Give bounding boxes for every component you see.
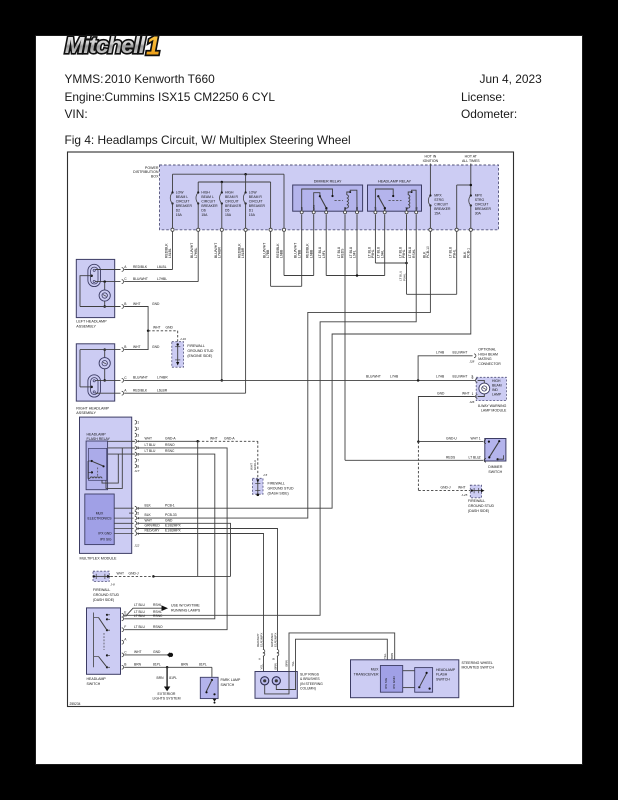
svg-text:GROUND STUD: GROUND STUD: [187, 349, 214, 353]
multiplex module pin 7: [135, 458, 137, 462]
svg-text:BREAKER: BREAKER: [434, 207, 451, 211]
svg-text:(DASH SIDE): (DASH SIDE): [93, 598, 114, 602]
svg-text:LAMP: LAMP: [492, 393, 502, 397]
svg-text:8-WAY WARNING: 8-WAY WARNING: [478, 404, 507, 408]
wire GND-J dashed drop: [417, 442, 419, 491]
circuit breaker D2: [172, 174, 174, 192]
svg-text:(DASH SIDE): (DASH SIDE): [268, 491, 289, 495]
multiplex module pin 1: [135, 420, 137, 424]
svg-text:GND: GND: [152, 345, 160, 349]
svg-text:HOT IN: HOT IN: [424, 154, 436, 158]
svg-text:J22: J22: [135, 544, 140, 548]
svg-text:F: F: [124, 625, 126, 629]
svg-text:EXTERIOR: EXTERIOR: [158, 692, 176, 696]
wire PCB-1: [137, 231, 471, 508]
svg-text:DIMMER: DIMMER: [488, 465, 503, 469]
svg-text:HIGH BEAM: HIGH BEAM: [478, 352, 498, 356]
wire flash relay to pin 5: [108, 447, 136, 449]
svg-text:REDS: REDS: [341, 248, 345, 258]
wire flash relay to pin 6: [108, 453, 136, 455]
svg-text:85: 85: [414, 206, 418, 209]
svg-text:LAMP MODULE: LAMP MODULE: [481, 409, 507, 413]
svg-text:6: 6: [137, 507, 139, 511]
svg-text:L6BB: L6BB: [309, 249, 313, 258]
svg-text:GROUND STUD: GROUND STUD: [268, 486, 295, 490]
svg-text:WHT: WHT: [134, 650, 142, 654]
wire P9HL headlamp 87-86 link: [374, 214, 376, 263]
mux electronics box: [85, 494, 114, 545]
svg-text:81PL: 81PL: [153, 662, 161, 666]
svg-text:1: 1: [479, 437, 481, 441]
svg-text:1: 1: [472, 392, 474, 396]
svg-text:GND-J: GND-J: [129, 571, 139, 575]
dimmer relay pin 85: [356, 211, 359, 214]
multiplex module lower pin 6: [114, 507, 133, 509]
svg-text:MPX: MPX: [475, 193, 483, 197]
svg-text:ETA: ETA: [312, 205, 316, 210]
multiplex module lower pin 2: [114, 528, 133, 530]
svg-text:30: 30: [324, 206, 328, 209]
svg-text:LT BLU: LT BLU: [145, 443, 156, 447]
dimmer switch pin 2: [484, 458, 486, 462]
wire GND left headlamp: [124, 307, 148, 331]
svg-text:RUNNING LAMPS: RUNNING LAMPS: [171, 608, 201, 612]
svg-text:J28: J28: [470, 359, 475, 363]
svg-text:L6LBL: L6LBL: [157, 265, 167, 269]
svg-text:BRN: BRN: [157, 676, 165, 680]
wire RSNC: [124, 454, 215, 619]
svg-text:IPX GND: IPX GND: [98, 532, 112, 536]
svg-text:(ENGINE SIDE): (ENGINE SIDE): [187, 354, 212, 358]
svg-text:J-25: J-25: [462, 493, 468, 497]
svg-text:L6LBR: L6LBR: [241, 247, 245, 258]
svg-text:2: 2: [472, 376, 474, 380]
svg-text:15A: 15A: [249, 213, 256, 217]
svg-text:B: B: [124, 663, 127, 667]
svg-text:LOW: LOW: [249, 190, 258, 194]
wire BRN slip ring riser: [289, 633, 395, 672]
svg-text:BRN: BRN: [181, 662, 189, 666]
svg-text:RIGHT HEADLAMP: RIGHT HEADLAMP: [76, 406, 109, 410]
svg-text:SWITCH: SWITCH: [87, 682, 101, 686]
svg-text:CIRCUIT: CIRCUIT: [249, 199, 263, 203]
svg-text:SWITCH: SWITCH: [221, 683, 235, 687]
multiplex module pin 4: [132, 440, 134, 442]
firewall ground stud J-25 (dash side): [470, 485, 481, 498]
8-way warning lamp module box: [476, 377, 506, 400]
svg-text:CIRCUIT: CIRCUIT: [201, 199, 215, 203]
multiplex module box: [80, 417, 132, 553]
svg-text:WHT: WHT: [153, 326, 161, 330]
svg-text:P9HL: P9HL: [371, 249, 375, 258]
svg-text:TRANSCEIVER: TRANSCEIVER: [354, 673, 379, 677]
left headlamp assembly: [76, 259, 114, 317]
wire RSHL: [124, 214, 416, 615]
svg-text:E1/82MPX: E1/82MPX: [274, 633, 278, 647]
svg-text:HIGH: HIGH: [201, 190, 210, 194]
svg-text:FLASH RELAY: FLASH RELAY: [87, 437, 111, 441]
svg-text:4: 4: [137, 516, 139, 520]
svg-text:A: A: [124, 389, 127, 393]
svg-text:E1/83MPX: E1/83MPX: [260, 633, 264, 647]
headlamp relay pin 87: [374, 211, 377, 214]
svg-text:GRN/RED: GRN/RED: [145, 524, 161, 528]
svg-text:(DASH SIDE): (DASH SIDE): [468, 509, 489, 513]
svg-text:HOT AT: HOT AT: [465, 154, 478, 158]
svg-text:85: 85: [355, 206, 359, 209]
svg-text:GND: GND: [152, 302, 160, 306]
header text: [65, 72, 104, 86]
svg-text:FIREWALL: FIREWALL: [268, 481, 285, 485]
svg-text:WHT: WHT: [458, 485, 466, 489]
wire L7BB drop: [270, 182, 272, 230]
svg-text:L6LBL: L6LBL: [168, 248, 172, 258]
MPX STRG circuit breaker 30A: [470, 164, 472, 196]
wire GND-J solid: [153, 575, 230, 577]
headlamp flash relay K1: [86, 441, 108, 490]
svg-text:B: B: [124, 345, 127, 349]
svg-text:BRN: BRN: [285, 660, 289, 666]
svg-text:GND-A: GND-A: [253, 459, 257, 470]
headlamp switch pin D: [122, 617, 124, 621]
svg-text:GND: GND: [153, 650, 161, 654]
svg-text:BRN: BRN: [273, 663, 277, 669]
svg-text:86: 86: [343, 206, 347, 209]
svg-text:RSNC: RSNC: [165, 449, 175, 453]
svg-text:WHT: WHT: [133, 302, 141, 306]
svg-text:86: 86: [405, 206, 409, 209]
svg-text:LT BLU: LT BLU: [134, 603, 145, 607]
svg-text:L6LBR: L6LBR: [157, 388, 168, 392]
wire E1/82MPX: [137, 529, 277, 650]
svg-text:OPTIONAL: OPTIONAL: [478, 348, 496, 352]
svg-text:CONNECTOR: CONNECTOR: [478, 362, 501, 366]
svg-text:HEADLAMP: HEADLAMP: [436, 668, 456, 672]
headlamp switch pin F: [122, 628, 124, 632]
svg-text:BLK: BLK: [145, 513, 152, 517]
svg-text:E1/82MPX: E1/82MPX: [165, 524, 182, 528]
headlamp switch pin E: [122, 613, 124, 617]
svg-text:ASSEMBLY: ASSEMBLY: [76, 324, 96, 328]
wire GND from 8-way lamp: [418, 397, 475, 442]
svg-text:DISTRIBUTION: DISTRIBUTION: [133, 170, 159, 174]
svg-text:BREAKER: BREAKER: [225, 204, 242, 208]
svg-text:15A: 15A: [176, 213, 183, 217]
high beam indicator lamp: [479, 383, 490, 394]
svg-text:MUX: MUX: [371, 668, 379, 672]
svg-text:IPX SIG: IPX SIG: [100, 538, 112, 542]
slip rings and brushes: [255, 672, 297, 699]
svg-text:FLASH: FLASH: [436, 673, 448, 677]
svg-text:BLU/WHT: BLU/WHT: [453, 351, 468, 355]
svg-text:15A: 15A: [434, 211, 441, 215]
svg-text:BREAKER: BREAKER: [201, 204, 218, 208]
MPX STRG circuit breaker 15A: [429, 164, 431, 196]
svg-text:IND: IND: [492, 388, 498, 392]
svg-text:BREAKER: BREAKER: [176, 204, 193, 208]
svg-text:D6: D6: [201, 208, 205, 212]
svg-text:RED/GRY: RED/GRY: [145, 529, 161, 533]
svg-text:& BRUSHES: & BRUSHES: [300, 677, 320, 681]
svg-text:L7HBL: L7HBL: [157, 277, 167, 281]
wire RSNO: [124, 448, 227, 630]
svg-text:DIMMER RELAY: DIMMER RELAY: [314, 180, 342, 184]
svg-text:PARK LAMP: PARK LAMP: [221, 678, 241, 682]
svg-text:81PL: 81PL: [169, 676, 177, 680]
svg-text:PCB-10: PCB-10: [426, 246, 430, 258]
svg-text:2: 2: [137, 427, 139, 431]
left headlamp pin B: [122, 305, 124, 309]
svg-text:WHT: WHT: [133, 345, 141, 349]
diagram border frame: [68, 152, 514, 707]
dimmer relay pin 86: [344, 211, 347, 214]
wire L6LBL: [124, 269, 172, 271]
svg-text:GROUND STUD: GROUND STUD: [93, 593, 120, 597]
svg-text:RSNO: RSNO: [153, 625, 163, 629]
firewall ground stud J-8 (dash side): [93, 571, 109, 581]
svg-text:YEL: YEL: [291, 660, 295, 666]
wire GND right headlamp: [124, 331, 148, 350]
svg-text:SWITCH: SWITCH: [436, 677, 450, 681]
svg-text:WHT: WHT: [145, 518, 153, 522]
svg-text:BEAM R: BEAM R: [225, 195, 239, 199]
svg-text:15A: 15A: [201, 213, 208, 217]
dimmer relay pin 87: [300, 211, 303, 214]
mux transceiver U3: [380, 666, 402, 693]
svg-text:L7HB: L7HB: [390, 375, 399, 379]
wire L6LBR: [124, 392, 245, 394]
svg-text:(IN STEERING: (IN STEERING: [300, 682, 323, 686]
svg-text:BLU/WHT: BLU/WHT: [453, 375, 468, 379]
svg-text:BEAM: BEAM: [492, 383, 502, 387]
multiplex module lower pin 1: [114, 533, 133, 535]
svg-text:J-19: J-19: [180, 337, 186, 341]
multiplex module lower pin 5: [129, 512, 134, 514]
svg-text:87: 87: [374, 206, 378, 209]
svg-text:POWER: POWER: [145, 166, 159, 170]
svg-text:C: C: [124, 650, 127, 654]
svg-text:CIRCUIT: CIRCUIT: [225, 199, 239, 203]
svg-text:REDS: REDS: [446, 455, 456, 459]
svg-text:P9HL: P9HL: [402, 273, 406, 281]
wire GND-J dashed row: [418, 490, 470, 492]
svg-text:ALL TIMES: ALL TIMES: [462, 159, 480, 163]
svg-text:WHT: WHT: [210, 436, 218, 440]
wire 81PL: [124, 666, 212, 668]
bus rail 1: [173, 173, 285, 175]
left headlamp pin A: [122, 268, 124, 272]
svg-text:A: A: [124, 638, 127, 642]
wire 30A branch to P9HL: [457, 184, 471, 186]
svg-text:15A: 15A: [225, 213, 232, 217]
svg-text:PCB-1: PCB-1: [165, 503, 175, 507]
svg-text:FIREWALL: FIREWALL: [93, 588, 110, 592]
svg-text:YEL: YEL: [383, 653, 387, 659]
wire L6BB link to dimmer ETA: [284, 275, 314, 277]
wire GND-J dashed from stud: [111, 575, 154, 577]
svg-text:BREAKER: BREAKER: [249, 204, 266, 208]
wire flash relay loop 2: [106, 448, 122, 489]
power distribution box (dashed): [160, 165, 499, 230]
headlamp switch pin B: [122, 665, 124, 669]
svg-text:FIREWALL: FIREWALL: [468, 499, 485, 503]
svg-text:PCB-33: PCB-33: [165, 513, 177, 517]
wire REDS: [344, 214, 346, 460]
svg-text:LT BLU: LT BLU: [134, 625, 145, 629]
svg-text:FIREWALL: FIREWALL: [187, 344, 204, 348]
multiplex module pin 3: [135, 433, 137, 437]
wire L9FL bus: [325, 214, 327, 275]
svg-text:HIGH: HIGH: [225, 190, 234, 194]
wire L7HBL: [124, 281, 198, 283]
wire GND dashed to stud J-19: [148, 330, 178, 332]
multiplex module pin 2: [135, 427, 137, 431]
svg-text:A: A: [124, 265, 127, 269]
svg-text:BLK: BLK: [145, 503, 152, 507]
svg-text:MULTIPLEX MODULE: MULTIPLEX MODULE: [80, 556, 118, 560]
headlamp switch pin A: [122, 640, 124, 644]
svg-text:GND-A: GND-A: [224, 436, 235, 440]
wire GND-A: [137, 440, 198, 442]
wire L7HBR vertical: [221, 231, 223, 380]
wire E1/83MPX: [137, 534, 263, 650]
svg-text:HIGH: HIGH: [492, 379, 501, 383]
svg-text:RSHL: RSHL: [412, 249, 416, 258]
wire mux transceiver to flash switch: [403, 670, 415, 672]
svg-text:L7HBL: L7HBL: [194, 248, 198, 258]
headlamp relay pin 30: [383, 211, 386, 214]
svg-text:RSNC: RSNC: [153, 614, 163, 618]
svg-text:81PL: 81PL: [199, 662, 207, 666]
svg-text:P9HL: P9HL: [402, 249, 406, 258]
dimmer switch pin 1: [484, 440, 486, 444]
svg-text:255234: 255234: [70, 702, 81, 706]
svg-text:BLU/WHT: BLU/WHT: [133, 376, 148, 380]
svg-text:L7HBR: L7HBR: [217, 247, 221, 258]
wire flash relay to pin 4: [108, 440, 136, 442]
svg-text:IPX SIG: IPX SIG: [384, 677, 388, 689]
headlamp relay pin 85: [415, 211, 418, 214]
svg-text:ASSEMBLY: ASSEMBLY: [76, 411, 96, 415]
svg-text:2: 2: [479, 455, 481, 459]
svg-text:LT BLU: LT BLU: [145, 449, 156, 453]
svg-text:L7BB: L7BB: [297, 249, 301, 258]
headlamp switch pin C: [122, 653, 124, 657]
svg-text:J-8: J-8: [111, 582, 115, 586]
svg-text:1: 1: [137, 421, 139, 425]
svg-text:GROUND STUD: GROUND STUD: [468, 504, 495, 508]
wire L7HB branch to J28: [418, 356, 473, 381]
circuit breaker D5: [221, 182, 223, 193]
svg-text:USE W/ DAYTIME: USE W/ DAYTIME: [171, 604, 200, 608]
wire GND switch C: [124, 654, 168, 656]
svg-text:STRG: STRG: [475, 198, 485, 202]
svg-text:L7HB: L7HB: [436, 351, 445, 355]
svg-text:GND-A: GND-A: [165, 436, 176, 440]
bus rail 2: [198, 181, 270, 183]
svg-text:8: 8: [137, 464, 139, 468]
wire GND-U to dimmer switch: [418, 441, 483, 443]
svg-text:STRG: STRG: [434, 198, 444, 202]
svg-text:BLU/WHT: BLU/WHT: [366, 375, 381, 379]
wire GND-A riser: [197, 441, 199, 576]
wire flash relay loop 1: [102, 454, 118, 483]
wire 81PL arrow to exterior lights: [166, 667, 168, 686]
svg-text:D2: D2: [176, 208, 180, 212]
op-amp relay U1 (dimmer relay): [293, 185, 363, 211]
svg-text:LOW: LOW: [176, 190, 185, 194]
wire PCB-10: [137, 231, 430, 518]
svg-text:BEAM L: BEAM L: [176, 195, 189, 199]
right headlamp pin B: [122, 348, 124, 352]
svg-text:PCB-1: PCB-1: [466, 248, 470, 258]
svg-text:L7HB: L7HB: [436, 375, 445, 379]
wire RSHL fork to arrow: [127, 608, 162, 615]
firewall ground stud J-19 (engine side): [172, 342, 184, 368]
circuit breaker D6: [197, 182, 199, 193]
svg-text:D5: D5: [225, 208, 229, 212]
svg-text:P9HL: P9HL: [452, 249, 456, 258]
svg-text:SWITCH: SWITCH: [488, 470, 502, 474]
svg-text:STEERING WHEEL: STEERING WHEEL: [462, 661, 493, 665]
svg-text:RED/BLK: RED/BLK: [133, 265, 148, 269]
multiplex module lower pin 4: [114, 517, 133, 519]
svg-text:BREAKER: BREAKER: [475, 207, 492, 211]
svg-text:CIRCUIT: CIRCUIT: [176, 199, 190, 203]
svg-text:LEFT HEADLAMP: LEFT HEADLAMP: [76, 320, 107, 324]
svg-text:BEAM R: BEAM R: [249, 195, 263, 199]
svg-text:WHT: WHT: [145, 436, 153, 440]
left headlamp pin C: [122, 280, 124, 284]
svg-text:WHT: WHT: [471, 437, 479, 441]
slip ring pin B: [277, 649, 279, 653]
svg-text:J-5: J-5: [263, 473, 267, 477]
svg-text:WHT: WHT: [117, 571, 125, 575]
svg-text:D1: D1: [249, 208, 253, 212]
wire YEL slip ring riser: [296, 639, 388, 671]
svg-text:BEAM L: BEAM L: [201, 195, 214, 199]
svg-text:J17: J17: [135, 469, 140, 473]
park lamp switch S3: [200, 677, 218, 698]
8-way module pin 1: [476, 395, 478, 399]
headlamp switch S2: [87, 608, 121, 674]
svg-text:GND-U: GND-U: [446, 437, 457, 441]
svg-text:RSHL: RSHL: [153, 603, 162, 607]
svg-text:C: C: [124, 376, 127, 380]
svg-text:WHT: WHT: [462, 392, 470, 396]
Mitchell1 logo: [0, 0, 618, 80]
svg-text:IGNITION: IGNITION: [423, 159, 439, 163]
park lamp switch ground marker: [213, 699, 217, 702]
svg-text:MOUNTED SWITCH: MOUNTED SWITCH: [462, 666, 495, 670]
svg-text:IPX GND: IPX GND: [392, 676, 396, 689]
svg-text:L9FL: L9FL: [353, 250, 357, 258]
8-way module pin 2: [476, 379, 478, 383]
svg-text:GND-J: GND-J: [441, 485, 451, 489]
svg-text:LT BLU: LT BLU: [134, 614, 145, 618]
multiplex module pin 5: [132, 447, 134, 449]
svg-text:ELECTRONICS: ELECTRONICS: [87, 516, 112, 520]
svg-text:7: 7: [137, 459, 139, 463]
dimmer relay pin ETA: [312, 211, 315, 214]
svg-text:COLUMN): COLUMN): [300, 687, 316, 691]
svg-text:RED/BLK: RED/BLK: [133, 388, 148, 392]
wire L6BB drop: [283, 174, 285, 230]
wire GND mux pin3: [137, 523, 230, 576]
headlamp flash switch S4: [415, 668, 433, 693]
svg-text:B: B: [272, 658, 276, 660]
svg-text:RSNO: RSNO: [165, 443, 175, 447]
